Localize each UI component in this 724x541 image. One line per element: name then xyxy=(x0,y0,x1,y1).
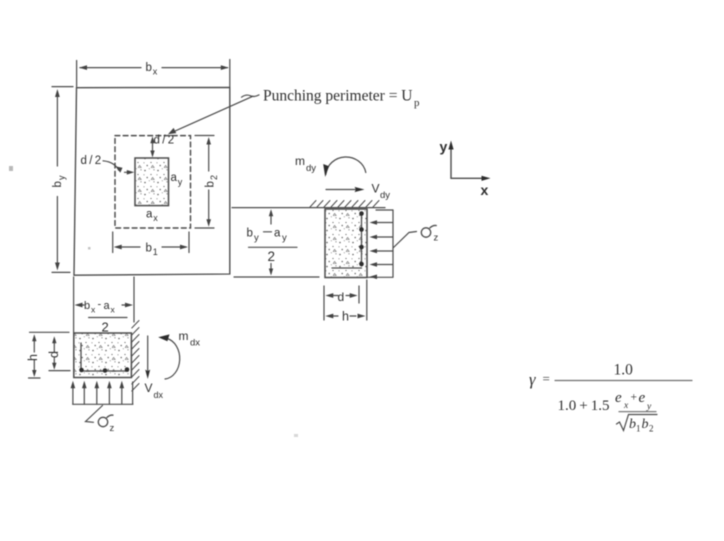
svg-text:-: - xyxy=(98,299,102,311)
svg-text:y: y xyxy=(646,402,652,412)
svg-text:1.0 + 1.5: 1.0 + 1.5 xyxy=(558,398,610,414)
svg-text:x: x xyxy=(153,213,158,223)
svg-text:2: 2 xyxy=(268,249,276,264)
svg-text:y: y xyxy=(440,139,448,155)
svg-text:+: + xyxy=(631,392,638,404)
svg-text:dy: dy xyxy=(306,163,316,174)
svg-text:b: b xyxy=(629,417,636,432)
svg-text:z: z xyxy=(110,423,115,434)
svg-text:Punching perimeter = U: Punching perimeter = U xyxy=(263,88,413,105)
svg-text:b: b xyxy=(84,300,90,312)
svg-text:b: b xyxy=(52,181,64,187)
svg-text:1.0: 1.0 xyxy=(614,362,634,379)
svg-text:γ: γ xyxy=(529,370,536,389)
svg-text:2: 2 xyxy=(649,424,654,434)
svg-text:m: m xyxy=(295,154,305,168)
svg-text:=: = xyxy=(543,371,550,386)
svg-text:V: V xyxy=(145,381,153,395)
svg-text:b: b xyxy=(146,243,152,255)
svg-text:d: d xyxy=(47,351,61,358)
svg-text:a: a xyxy=(274,228,281,240)
svg-text:x: x xyxy=(153,67,158,77)
svg-text:d / 2: d / 2 xyxy=(81,155,102,167)
svg-text:y: y xyxy=(254,233,259,244)
svg-text:z: z xyxy=(434,233,439,244)
svg-text:x: x xyxy=(91,305,96,315)
svg-text:x: x xyxy=(623,401,629,411)
svg-text:a: a xyxy=(146,209,153,221)
svg-text:2: 2 xyxy=(102,320,109,335)
svg-text:dx: dx xyxy=(154,390,164,400)
svg-text:1: 1 xyxy=(636,424,641,434)
svg-text:d / 2: d / 2 xyxy=(154,135,175,147)
svg-text:h: h xyxy=(342,310,349,324)
svg-text:dx: dx xyxy=(190,338,200,349)
svg-text:dy: dy xyxy=(380,190,390,201)
svg-text:V: V xyxy=(372,182,380,196)
svg-text:x: x xyxy=(111,305,116,315)
svg-text:b: b xyxy=(205,181,217,187)
svg-text:b: b xyxy=(642,417,649,432)
svg-text:b: b xyxy=(247,228,253,240)
svg-text:x: x xyxy=(481,182,489,198)
svg-text:y: y xyxy=(178,177,183,187)
svg-text:e: e xyxy=(615,390,622,406)
svg-text:e: e xyxy=(639,390,646,406)
svg-text:a: a xyxy=(171,172,178,184)
svg-text:b: b xyxy=(146,62,152,74)
svg-text:2: 2 xyxy=(209,175,219,180)
svg-text:h: h xyxy=(26,354,40,361)
svg-text:1: 1 xyxy=(153,247,158,257)
svg-text:y: y xyxy=(282,233,287,244)
svg-text:a: a xyxy=(104,300,111,312)
svg-text:m: m xyxy=(179,329,189,343)
svg-text:y: y xyxy=(57,175,67,180)
svg-text:p: p xyxy=(414,97,420,109)
svg-text:d: d xyxy=(338,290,345,304)
